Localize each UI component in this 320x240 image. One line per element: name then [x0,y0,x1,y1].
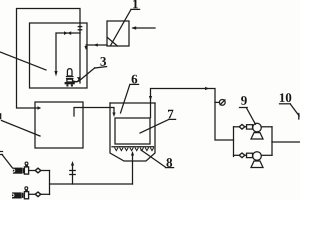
wire arrowhead into reaction box [38,106,42,109]
leader line top-left label (cut off) [0,52,46,70]
box U1 filter unit [107,21,129,46]
wire U1 inlet stub with arrow [133,27,155,29]
label 10 [280,93,285,102]
pump P2 dosing pump [11,187,35,199]
sample port symbol [215,101,219,103]
wire loop from tank 6 to right manifold [151,89,234,141]
pump 9b circulating pump [247,153,253,157]
valve D2 diamond [239,153,245,158]
wire recirculation branch into tank [56,33,80,72]
wire top branch [234,126,240,128]
arrowhead down into tank [54,71,57,77]
pump 9a circulating pump [247,125,253,129]
leader to pump P1 [2,155,13,169]
leader line left-mid label (cut off) [2,121,41,137]
label fragment bottom-left [0,152,3,155]
box 7 inner clarifier module [115,118,150,144]
wire U1 outlet back into tank [86,44,107,46]
valve D1 diamond [239,125,245,130]
diffuser grid 8 [112,146,154,148]
leader to label 1 [111,10,132,46]
corner diagonal inside U1 [107,38,117,47]
wire outlet line 10 [272,141,300,143]
label 9 [241,96,247,105]
valve V2 ticks on riser [78,27,81,30]
label 7 [168,110,173,119]
valve DV2 diamond [35,192,41,197]
label 8 [166,158,172,167]
sparger symbol on main line [72,165,74,184]
wire outer loop: riser top, top edge, left down-pipe [17,9,81,109]
wire junction vertical [49,171,51,195]
pump P3 submersible pump [65,69,81,87]
box T2 reaction box [35,102,83,148]
manifold right header [271,127,273,156]
tank T6 hopper-bottom tank [110,102,155,104]
label 3 [100,57,106,66]
tank T1 adjusting tank [30,23,88,88]
wire bottom main line [50,183,133,185]
label fragment left-mid [0,114,2,119]
wire T2 outlet dip-tube into tank 6 [74,108,114,117]
wire riser lower segment to pump discharge [79,33,81,83]
wire riser into tank 6 bottom [132,155,134,184]
pump P1 dosing pump [12,162,35,174]
wire bottom branch [234,154,240,156]
manifold left header [233,127,235,157]
valve V1 bowtie [64,31,71,35]
valve DV1 diamond [35,168,41,173]
label 6 [132,75,138,84]
label 1 [133,0,138,8]
